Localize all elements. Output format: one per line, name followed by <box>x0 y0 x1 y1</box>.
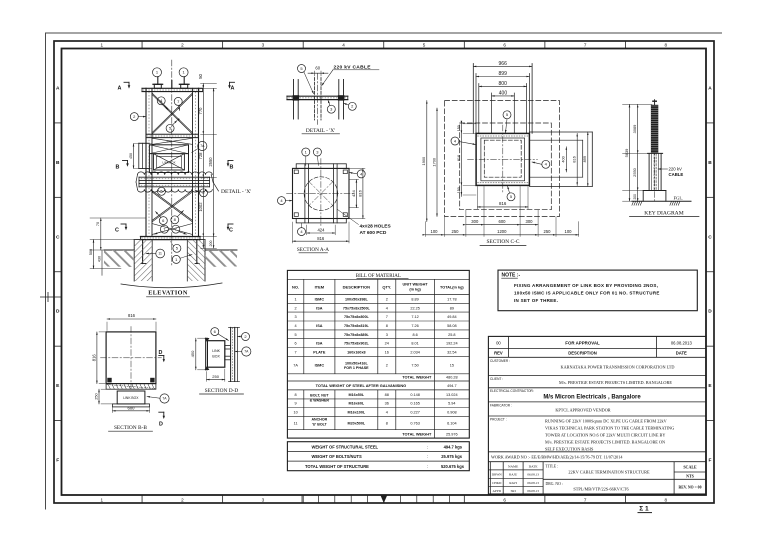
SECTION A-A: centre lines <box>320 159 322 228</box>
svg-text:8: 8 <box>664 43 667 48</box>
svg-text:ELEVATION: ELEVATION <box>148 290 188 297</box>
callout 2 (column) <box>130 113 138 121</box>
svg-text:600: 600 <box>499 219 507 224</box>
svg-text:3: 3 <box>262 43 265 48</box>
svg-text:DESCRIPTION: DESCRIPTION <box>343 285 370 290</box>
ELEVATION: stud bolt right with pad <box>181 84 188 88</box>
callout 2 (cloud right) <box>200 189 208 197</box>
callout 1 (pedestal) <box>172 255 180 263</box>
svg-text:10: 10 <box>293 410 297 414</box>
ELEVATION: base plate <box>141 236 201 238</box>
B-B: link box <box>117 391 145 404</box>
svg-text:TOTAL WEIGHT: TOTAL WEIGHT <box>402 432 432 437</box>
svg-text:424: 424 <box>317 228 325 233</box>
SECTION A-A: channel webs <box>304 164 306 223</box>
D-D: dim 450 <box>195 338 197 370</box>
C-C bottom chain 100/250/1200/250/100 <box>426 234 579 236</box>
svg-text:AT 600 PCD: AT 600 PCD <box>360 230 387 236</box>
svg-text:4: 4 <box>386 306 388 310</box>
svg-text:3: 3 <box>386 333 388 337</box>
pedestal outline <box>134 239 205 241</box>
SECTION A-A: corner cleats <box>294 170 298 174</box>
BOM: outer frame <box>287 270 469 438</box>
svg-text:M16x100L: M16x100L <box>348 410 366 414</box>
svg-text:7A: 7A <box>244 350 249 354</box>
ELEVATION left dims 70/500/430 <box>100 218 102 250</box>
callout 5 (bottom) <box>507 193 515 201</box>
svg-text:IN SET OF THREE.: IN SET OF THREE. <box>514 298 558 303</box>
ground line left <box>104 249 134 251</box>
svg-text:300: 300 <box>526 219 534 224</box>
section B markers <box>123 160 128 162</box>
svg-text:3089: 3089 <box>632 125 637 134</box>
svg-text:& WASHER: & WASHER <box>310 399 330 403</box>
BOM: title row <box>287 278 469 280</box>
C-C posts from above <box>472 64 474 134</box>
BOM: galvanising row <box>287 389 469 391</box>
soil hatch left <box>104 250 134 267</box>
svg-text:B: B <box>708 160 712 166</box>
BOM: header row <box>287 294 469 296</box>
svg-text:PROJECT :: PROJECT : <box>490 417 507 421</box>
svg-text:480.28: 480.28 <box>446 375 458 379</box>
callout 4 (left) <box>278 197 286 205</box>
svg-text:6: 6 <box>295 342 297 346</box>
bottom block: name/date mini table <box>489 462 491 494</box>
svg-text:899: 899 <box>583 156 587 162</box>
svg-text:ISA: ISA <box>316 342 323 346</box>
C-C inner dashed square <box>484 140 521 177</box>
svg-text:DRWN: DRWN <box>492 473 503 477</box>
KEY dims 3089/2550/200 <box>637 104 639 201</box>
SECTION A-A: top flange band <box>296 164 346 169</box>
svg-text:NOTE :-: NOTE :- <box>502 273 521 279</box>
svg-text:0.227: 0.227 <box>410 410 420 414</box>
svg-text:KPTCL APPROVED VENDOR: KPTCL APPROVED VENDOR <box>555 407 610 412</box>
svg-text:816: 816 <box>128 313 136 318</box>
svg-text:8.6: 8.6 <box>412 333 417 337</box>
svg-text:SECTION C-C: SECTION C-C <box>486 239 519 245</box>
svg-text:60: 60 <box>315 66 320 71</box>
SECTION A-A: bottom flange band <box>296 219 346 223</box>
svg-text::: : <box>427 444 428 449</box>
svg-text:200: 200 <box>633 194 637 200</box>
svg-text:Σ 1: Σ 1 <box>639 506 649 513</box>
section C markers <box>121 223 126 225</box>
svg-text:70: 70 <box>96 222 100 226</box>
B-B: dim 250 <box>98 389 100 404</box>
svg-text:899: 899 <box>499 71 508 77</box>
svg-text:TOWER AT LOCATION NO.6 OF 22kV: TOWER AT LOCATION NO.6 OF 22kV MULTI CIR… <box>545 432 665 437</box>
svg-text:2: 2 <box>181 497 184 502</box>
svg-text::: : <box>427 464 428 469</box>
C-C top dim 966 <box>473 65 532 67</box>
callout 1 (right stud) <box>179 68 188 77</box>
BOM: vertical lines (bolt zone) <box>303 390 305 430</box>
svg-text:ISA: ISA <box>316 306 323 310</box>
svg-text:770: 770 <box>198 107 203 115</box>
svg-text:7.50: 7.50 <box>411 364 418 368</box>
svg-text:75x75x8x2500L: 75x75x8x2500L <box>343 306 371 310</box>
KEY: plinth <box>643 190 666 192</box>
callout 1 (left stud) <box>153 68 162 77</box>
svg-text:WEIGHT OF STRUCTURAL STEEL: WEIGHT OF STRUCTURAL STEEL <box>312 444 379 449</box>
svg-text:B: B <box>230 165 234 171</box>
svg-text:7A: 7A <box>200 144 205 148</box>
svg-text:9: 9 <box>295 402 297 406</box>
svg-text:SECTION B-B: SECTION B-B <box>114 425 147 431</box>
D-D: left flange plate <box>205 338 207 370</box>
ELEVATION: stud bolt left with pad <box>154 84 161 88</box>
svg-text:49.84: 49.84 <box>447 315 457 319</box>
svg-text:1200: 1200 <box>497 229 507 234</box>
SECTION A-A: bolt circle (600 PCD) <box>304 177 338 211</box>
svg-text:WORK AWARD NO :- EE/E/BMW/H: WORK AWARD NO :- EE/E/BMW/HD/AEE(2)/14-1… <box>491 454 623 459</box>
callout 11 (anchor) <box>156 249 165 258</box>
svg-text:15: 15 <box>450 364 454 368</box>
NOTE box <box>498 270 697 311</box>
svg-text:424: 424 <box>351 190 356 197</box>
svg-text:816: 816 <box>457 155 461 161</box>
D-D: callout 7A <box>242 347 251 356</box>
svg-text:0.763: 0.763 <box>410 421 420 425</box>
svg-text:25.976: 25.976 <box>446 433 458 437</box>
svg-text:6: 6 <box>503 43 506 48</box>
svg-text:16: 16 <box>385 350 389 354</box>
svg-text:TOTAL WEIGHT: TOTAL WEIGHT <box>402 374 432 379</box>
BOM: bolt rows <box>287 398 469 400</box>
svg-text:75x75x8x902L: 75x75x8x902L <box>344 342 370 346</box>
svg-text:7: 7 <box>584 497 587 502</box>
svg-text:450: 450 <box>129 153 133 159</box>
svg-text:192.24: 192.24 <box>446 342 458 346</box>
svg-text:FOR 1 PHASE: FOR 1 PHASE <box>344 366 369 370</box>
svg-text:5839: 5839 <box>624 149 629 158</box>
sheet outer edge line <box>46 33 723 510</box>
svg-text:17.78: 17.78 <box>447 297 457 301</box>
svg-text:FGL.: FGL. <box>674 196 684 201</box>
svg-text:32.54: 32.54 <box>447 350 457 354</box>
svg-text:D: D <box>159 350 163 356</box>
DETAIL X: cable (dashed) <box>313 78 315 121</box>
svg-text:100: 100 <box>565 229 573 234</box>
svg-text:REV. NO = 00: REV. NO = 00 <box>679 486 702 490</box>
svg-text:DATE: DATE <box>529 464 538 468</box>
title block outer <box>488 336 706 494</box>
svg-text:24: 24 <box>385 342 389 346</box>
C-C top dim 400 <box>492 95 515 97</box>
svg-text:06.08.13: 06.08.13 <box>527 481 539 485</box>
B-B: top dim 816 <box>107 318 156 320</box>
svg-text:RUNNING OF 22kV 1000Sqmm DC XL: RUNNING OF 22kV 1000Sqmm DC XLPE UG CABL… <box>545 418 668 423</box>
svg-text:7A: 7A <box>162 397 167 401</box>
svg-text:3: 3 <box>295 315 297 319</box>
ELEVATION: lower X bracing <box>152 191 193 221</box>
C-C left dims 1900/1700 <box>426 101 428 222</box>
BOM: total weight row <box>287 380 469 382</box>
svg-text:2: 2 <box>386 297 388 301</box>
D-D: column web <box>230 327 232 381</box>
svg-text:220 kV: 220 kV <box>669 166 683 171</box>
svg-text:NAME: NAME <box>508 464 518 468</box>
svg-text:75x75x8x889L: 75x75x8x889L <box>344 333 370 337</box>
svg-text:ISMC: ISMC <box>315 364 325 368</box>
client row <box>488 387 706 389</box>
svg-text:1700: 1700 <box>431 157 436 166</box>
electrical contractor row <box>488 401 706 403</box>
callout 4 (right upper) <box>357 170 365 178</box>
svg-text:494.7 kgs: 494.7 kgs <box>444 444 463 449</box>
ELEVATION: upper X bracing <box>152 93 193 133</box>
svg-text:900: 900 <box>167 140 172 144</box>
svg-text:M/s. PRESTIGE ESTATE PROJECTS: M/s. PRESTIGE ESTATE PROJECTS LIMITED. B… <box>559 380 672 385</box>
svg-text:200: 200 <box>209 241 213 247</box>
pedestal break line <box>121 283 222 288</box>
svg-text:LINK BOX: LINK BOX <box>123 396 139 400</box>
ELEVATION right dim chain 50/770/728/1002 <box>202 84 204 249</box>
svg-text:5: 5 <box>295 333 297 337</box>
svg-text:6.104: 6.104 <box>447 421 457 425</box>
C-C outer dashed rectangle <box>445 101 560 217</box>
svg-text:C: C <box>708 234 712 240</box>
extension lines right <box>201 83 217 85</box>
bottom block: scale boxes <box>674 471 706 473</box>
SECTION A-A: outer plate square <box>293 168 350 218</box>
svg-text:(in kg): (in kg) <box>409 288 421 292</box>
D-D: connection stubs <box>225 345 231 349</box>
svg-text:BOLT, NUT: BOLT, NUT <box>310 394 329 398</box>
svg-text:160x160x8: 160x160x8 <box>347 350 365 354</box>
B-B: dim 600 <box>113 410 150 412</box>
ELEVATION overall dim 2550 + 200 <box>213 88 215 236</box>
svg-text:ITEM: ITEM <box>315 285 325 290</box>
svg-text:DATE: DATE <box>676 351 687 356</box>
KEY: centre line <box>654 100 656 204</box>
ELEVATION: link box outer frame <box>149 145 188 173</box>
bottom centre fine graduations <box>301 495 303 503</box>
svg-text:D: D <box>159 422 163 428</box>
svg-text:M20x500L: M20x500L <box>348 421 366 425</box>
svg-text:2: 2 <box>181 43 184 48</box>
C-C centre lines <box>502 125 504 194</box>
svg-text:7.12: 7.12 <box>411 315 418 319</box>
B-B: outer square <box>106 332 156 384</box>
D-D: dim 250 <box>207 379 225 381</box>
B-B: flange band with stitch <box>106 384 156 390</box>
svg-text:100: 100 <box>431 229 439 234</box>
svg-text:58.08: 58.08 <box>447 324 457 328</box>
KEY: ground hatch <box>632 201 634 205</box>
svg-text:36: 36 <box>385 402 389 406</box>
B-B: D marker top <box>159 355 164 357</box>
DETAIL X: horizontal beam <box>287 95 348 97</box>
C-C top dim 899 <box>476 76 529 78</box>
svg-text:816: 816 <box>357 189 362 196</box>
svg-text:7A: 7A <box>293 364 298 368</box>
KEY: support structure <box>648 153 650 190</box>
svg-text:8: 8 <box>664 497 667 502</box>
svg-text:KEY DIAGRAM: KEY DIAGRAM <box>644 210 683 216</box>
svg-text:7: 7 <box>584 43 587 48</box>
svg-text:D: D <box>56 309 60 315</box>
svg-text:430: 430 <box>97 256 101 262</box>
svg-text:816: 816 <box>91 354 96 362</box>
svg-text:06.08.13: 06.08.13 <box>527 489 539 493</box>
svg-text:A: A <box>56 85 60 91</box>
svg-text:C: C <box>229 228 233 234</box>
callout 7 (upper) <box>174 97 182 105</box>
callout 5 (upper brace) <box>166 124 174 132</box>
callout 5 (top) <box>503 111 511 119</box>
callout 4 (arm) <box>542 160 550 168</box>
SECTION A-A right dims 424/816 <box>355 180 357 208</box>
svg-text:ISA: ISA <box>316 324 323 328</box>
svg-text::: : <box>427 454 428 459</box>
ELEVATION: lower small brace <box>152 224 193 235</box>
drawing inner frame <box>62 49 707 496</box>
B-B: left dim 816 <box>96 332 98 384</box>
svg-text:BOX: BOX <box>212 355 220 359</box>
svg-text:150: 150 <box>457 187 461 193</box>
callout 4 <box>157 97 165 105</box>
svg-text:0.165: 0.165 <box>410 402 420 406</box>
BOM: vertical column lines (upper zone) <box>303 279 305 374</box>
ELEVATION: link box left bracket <box>138 143 140 168</box>
B-B: callout 7A <box>160 394 169 403</box>
svg-text:SECTION D-D: SECTION D-D <box>205 388 239 394</box>
B-B: D marker bottom <box>159 411 164 413</box>
C-C bottom dim 816 <box>477 206 528 208</box>
svg-text:C: C <box>115 228 119 234</box>
svg-text:728: 728 <box>198 152 203 160</box>
svg-text:ANCHOR: ANCHOR <box>311 418 327 422</box>
B-B: base strip <box>113 404 150 407</box>
C-C stitch rows <box>478 135 529 137</box>
svg-text:M/s Micron Electricals , Banga: M/s Micron Electricals , Bangalore <box>543 395 641 401</box>
svg-text:11: 11 <box>158 252 162 256</box>
callout 5 (detail) <box>298 65 306 73</box>
svg-text:7.26: 7.26 <box>411 324 418 328</box>
svg-text:0.908: 0.908 <box>447 410 457 414</box>
svg-text:B: B <box>116 165 120 171</box>
svg-text:0.148: 0.148 <box>410 393 420 397</box>
svg-text:250: 250 <box>212 374 219 379</box>
svg-text:7: 7 <box>295 350 297 354</box>
svg-text:2550: 2550 <box>632 167 637 176</box>
svg-text:494.7: 494.7 <box>447 384 457 388</box>
callout 4 (left) <box>451 137 459 145</box>
ELEVATION: top cap beam <box>142 87 203 89</box>
approval rows <box>488 347 706 349</box>
svg-text:300: 300 <box>471 219 479 224</box>
svg-text:1: 1 <box>101 497 104 502</box>
svg-text:816: 816 <box>499 201 507 206</box>
svg-text:75x75x8x800L: 75x75x8x800L <box>344 315 370 319</box>
svg-text:APPD: APPD <box>493 489 502 493</box>
svg-text:CHKD: CHKD <box>492 481 502 485</box>
svg-text:VIKAS TECHNICAL PARK STATION T: VIKAS TECHNICAL PARK STATION TO THE CABL… <box>545 425 674 430</box>
bottom centre fold triangle <box>380 495 387 503</box>
svg-text:CABLE: CABLE <box>669 172 684 177</box>
svg-text:22.25: 22.25 <box>410 306 420 310</box>
svg-text:TOTAL WEIGHT OF STEEL AFTE: TOTAL WEIGHT OF STEEL AFTER GALVANISING <box>316 383 407 388</box>
svg-text:A: A <box>708 85 712 91</box>
B-B: centre lines <box>130 327 132 390</box>
svg-text:250: 250 <box>544 229 552 234</box>
svg-text:NO.: NO. <box>292 285 299 290</box>
svg-text:6: 6 <box>503 497 506 502</box>
D-D: callout 6 <box>211 328 219 336</box>
svg-text:FIXING ARRANGEMENT OF LINK: FIXING ARRANGEMENT OF LINK BOX BY PROVID… <box>514 283 658 288</box>
anchor bolts <box>142 240 144 264</box>
project row <box>488 451 706 453</box>
C-C right dims 400/816/899 <box>565 147 567 172</box>
svg-text:400: 400 <box>499 90 508 96</box>
summary table <box>287 442 469 471</box>
callout 2 (detail) <box>348 102 356 110</box>
svg-text:REV: REV <box>494 351 503 356</box>
svg-text:RAJU: RAJU <box>509 473 518 477</box>
svg-text:966: 966 <box>499 61 508 67</box>
svg-text:TOTAL(in kg): TOTAL(in kg) <box>440 286 464 290</box>
svg-text:816: 816 <box>573 156 577 162</box>
svg-text:89: 89 <box>450 306 454 310</box>
D-D: link box <box>207 341 224 368</box>
svg-text:QTY.: QTY. <box>382 285 391 290</box>
svg-text:PLATE: PLATE <box>313 350 326 354</box>
dim 450 (link box) <box>133 144 135 169</box>
svg-text:CLIENT :: CLIENT : <box>490 377 503 381</box>
svg-text:13.024: 13.024 <box>446 393 458 397</box>
callout 3 (detail) <box>327 105 335 113</box>
ELEVATION: link box inner frame <box>154 154 185 170</box>
KEY extension lines <box>623 103 653 105</box>
callout 4 (bottom left) <box>298 228 306 236</box>
svg-text:DETAIL - 'X': DETAIL - 'X' <box>221 189 251 195</box>
svg-text:00: 00 <box>496 340 501 345</box>
KEY dim 5839 <box>629 104 631 201</box>
C-C top dim 800 <box>479 85 527 87</box>
ground line right <box>205 249 237 251</box>
svg-text:11: 11 <box>294 421 298 425</box>
svg-text:450: 450 <box>190 350 195 357</box>
svg-text:LINK: LINK <box>212 349 220 353</box>
svg-text:WEIGHT OF BOLTS/NUTS: WEIGHT OF BOLTS/NUTS <box>312 454 362 459</box>
svg-text:100x50 ISMC IS APPLICABLE: 100x50 ISMC IS APPLICABLE ONLY FOR 01 NO… <box>514 291 660 296</box>
svg-text:1: 1 <box>295 297 297 301</box>
work award row <box>488 461 706 463</box>
svg-text:25.975 kgs: 25.975 kgs <box>441 454 462 459</box>
svg-text:B: B <box>56 160 60 166</box>
svg-text:STPL/MB/VTP/22S-66KV/CT6: STPL/MB/VTP/22S-66KV/CT6 <box>573 486 628 491</box>
C-C inner solid square <box>481 138 525 181</box>
KEY: ground line <box>632 200 691 202</box>
ruler band outer rect <box>54 41 714 503</box>
section A markers <box>124 81 129 83</box>
svg-text:D: D <box>708 309 712 315</box>
svg-text:8: 8 <box>386 324 388 328</box>
svg-text:SELF EXECUTION BASIS: SELF EXECUTION BASIS <box>545 446 594 451</box>
ELEVATION: link box top sub X band <box>149 145 188 154</box>
svg-text:4: 4 <box>386 410 388 414</box>
ELEVATION: right column <box>192 88 194 236</box>
B-B: corner cleats bottom <box>107 378 111 383</box>
svg-text:F: F <box>56 458 59 464</box>
svg-text:1900: 1900 <box>421 156 426 165</box>
svg-text:3: 3 <box>262 497 265 502</box>
svg-text:1002: 1002 <box>198 202 203 212</box>
callouts lower brace <box>159 217 167 225</box>
